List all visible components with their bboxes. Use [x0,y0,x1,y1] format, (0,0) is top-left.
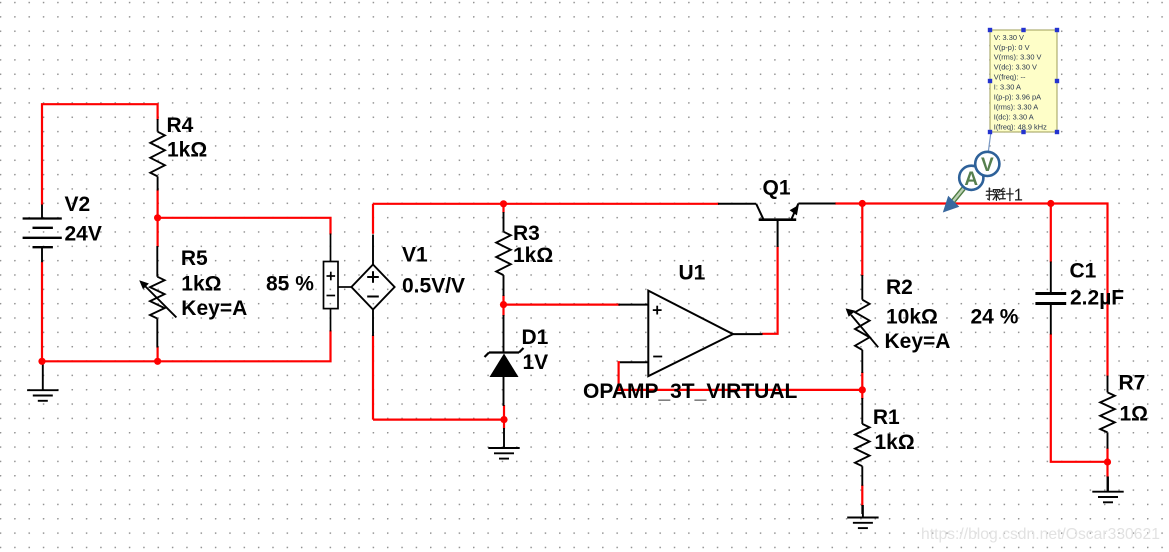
node node E junction (C1/R7/GND) [1104,458,1111,465]
wire R3 top stub [502,204,504,213]
wire V1 top lead [372,204,374,234]
svg-text:V: V [981,155,994,176]
VCVS V1 controlling-input port box [324,234,352,332]
svg-text:I(rms): 3.30 A: I(rms): 3.30 A [994,103,1038,112]
svg-text:R3: R3 [513,222,540,245]
svg-text:V(rms): 3.30 V: V(rms): 3.30 V [994,53,1042,62]
wire node A to VCVS input top [158,218,331,235]
svg-text:U1: U1 [679,262,706,285]
probe connector line to readout box [988,133,991,153]
probe arrow shaft [950,189,964,206]
node node D junction (feedback/R2/R1) [859,386,866,393]
wire ground rail V1 to D1 [373,419,504,421]
wire node D to R1 top [861,390,863,399]
svg-text:D1: D1 [522,326,549,349]
readout text lines [994,33,1047,132]
svg-text:1Ω: 1Ω [1120,403,1149,426]
svg-text:2.2µF: 2.2µF [1070,287,1124,310]
zener diode D1 [485,315,524,406]
node node B junction (V2-/rail) [38,358,45,365]
svg-text:R4: R4 [167,114,194,137]
probe label 探针1 [986,188,1013,201]
svg-text:1: 1 [1014,187,1023,205]
svg-text:24V: 24V [65,223,102,246]
svg-text:Key=A: Key=A [181,297,247,320]
svg-text:24 %: 24 % [971,306,1019,329]
wire V2 top to R4 top [42,104,158,205]
ground GND3 (under R1) [847,505,878,528]
node junction C1 top rail [1047,200,1054,207]
svg-text:I(dc): 3.30 A: I(dc): 3.30 A [994,112,1034,121]
wire V1 bottom lead [372,335,374,420]
svg-text:V(dc): 3.30 V: V(dc): 3.30 V [994,63,1037,72]
wire R1 bottom stub [861,485,863,506]
resistor R4 [150,119,165,191]
node junction R5 bottom [154,358,161,365]
probe readout box [990,30,1057,132]
svg-text:R2: R2 [886,276,913,299]
svg-text:V: 3.30 V: V: 3.30 V [994,33,1024,42]
transistor Q1 (PNP) [718,204,836,248]
svg-text:V(p-p): 0 V: V(p-p): 0 V [994,43,1030,52]
svg-text:1kΩ: 1kΩ [513,244,553,267]
node junction R3 top rail [500,200,507,207]
op-amp U1 [618,291,762,377]
svg-text:V1: V1 [402,244,428,267]
wire Q1 emitter rail to R7 top [835,204,1108,377]
wire D1 bottom stub [503,405,505,429]
wire R3 bottom to node C [502,295,504,316]
svg-text:I: 3.30 A: I: 3.30 A [994,83,1021,92]
wire node C to op-amp noninverting input [504,304,621,306]
wire op-amp output to Q1 base [762,246,778,334]
node node A junction (R4/R5/VCVS) [154,214,161,221]
svg-text:10kΩ: 10kΩ [886,306,938,329]
svg-text:C1: C1 [1070,260,1097,283]
wire R2 top stub [861,204,863,277]
svg-text:1kΩ: 1kΩ [875,431,915,454]
svg-text:1V: 1V [523,351,549,374]
svg-text:I(p-p): 3.96 pA: I(p-p): 3.96 pA [994,93,1041,102]
wire R2 bottom to node D [861,372,863,390]
svg-text:I(freq): 48.9 kHz: I(freq): 48.9 kHz [994,122,1047,131]
svg-text:R5: R5 [181,247,208,270]
ground GND1 (left rail) [27,363,58,401]
resistor R1 [855,398,870,514]
svg-text:OPAMP_3T_VIRTUAL: OPAMP_3T_VIRTUAL [583,380,797,403]
potentiometer R5 [145,246,177,348]
wire top rail V1 to Q1 collector [373,203,719,205]
wire R4 bottom to node A [157,190,159,218]
resistor R3 [496,212,511,296]
wire bottom-left rail node B to VCVS input bottom [42,330,331,361]
svg-text:1kΩ: 1kΩ [167,139,207,162]
probe ammeter circle A [959,166,983,190]
wire node A to R5 top [157,218,159,247]
resistor R7 [1100,376,1115,492]
node junction R2 top rail [859,200,866,207]
svg-text:A: A [964,169,978,190]
node node C junction (R3/D1/op-amp +) [500,301,507,308]
battery V2 [23,205,62,263]
ground GND2 (under D1) [488,428,519,459]
svg-text:V2: V2 [65,193,91,216]
svg-text:https://blog.csdn.net/Oscar330: https://blog.csdn.net/Oscar330621 [921,526,1160,543]
svg-text:V(freq): --: V(freq): -- [994,73,1026,82]
svg-text:Q1: Q1 [763,177,791,200]
dependent source V1 (VCVS diamond) [351,235,394,337]
wire C1 top stub [1050,204,1052,263]
wire C1 bottom to node E [1051,334,1108,462]
potentiometer R2 [851,275,878,373]
wire V2 bottom to node B [41,262,43,362]
wire R5 bottom to node B rail [157,347,159,362]
capacitor C1 [1035,262,1066,335]
node junction D1 ground rail [500,416,507,423]
svg-text:1kΩ: 1kΩ [181,273,221,296]
svg-text:R1: R1 [873,406,900,429]
wire R7 bottom to node E [1106,448,1108,477]
probe arrowhead [943,196,960,213]
ground GND4 (under R7) [1092,477,1123,503]
svg-text:Key=A: Key=A [885,330,951,353]
wire op-amp inverting input feedback [619,362,863,390]
svg-text:85 %: 85 % [266,273,314,296]
svg-text:0.5V/V: 0.5V/V [402,275,465,298]
probe voltmeter circle V [975,152,999,176]
selection handles on readout box [988,28,1059,134]
svg-text:R7: R7 [1119,372,1146,395]
